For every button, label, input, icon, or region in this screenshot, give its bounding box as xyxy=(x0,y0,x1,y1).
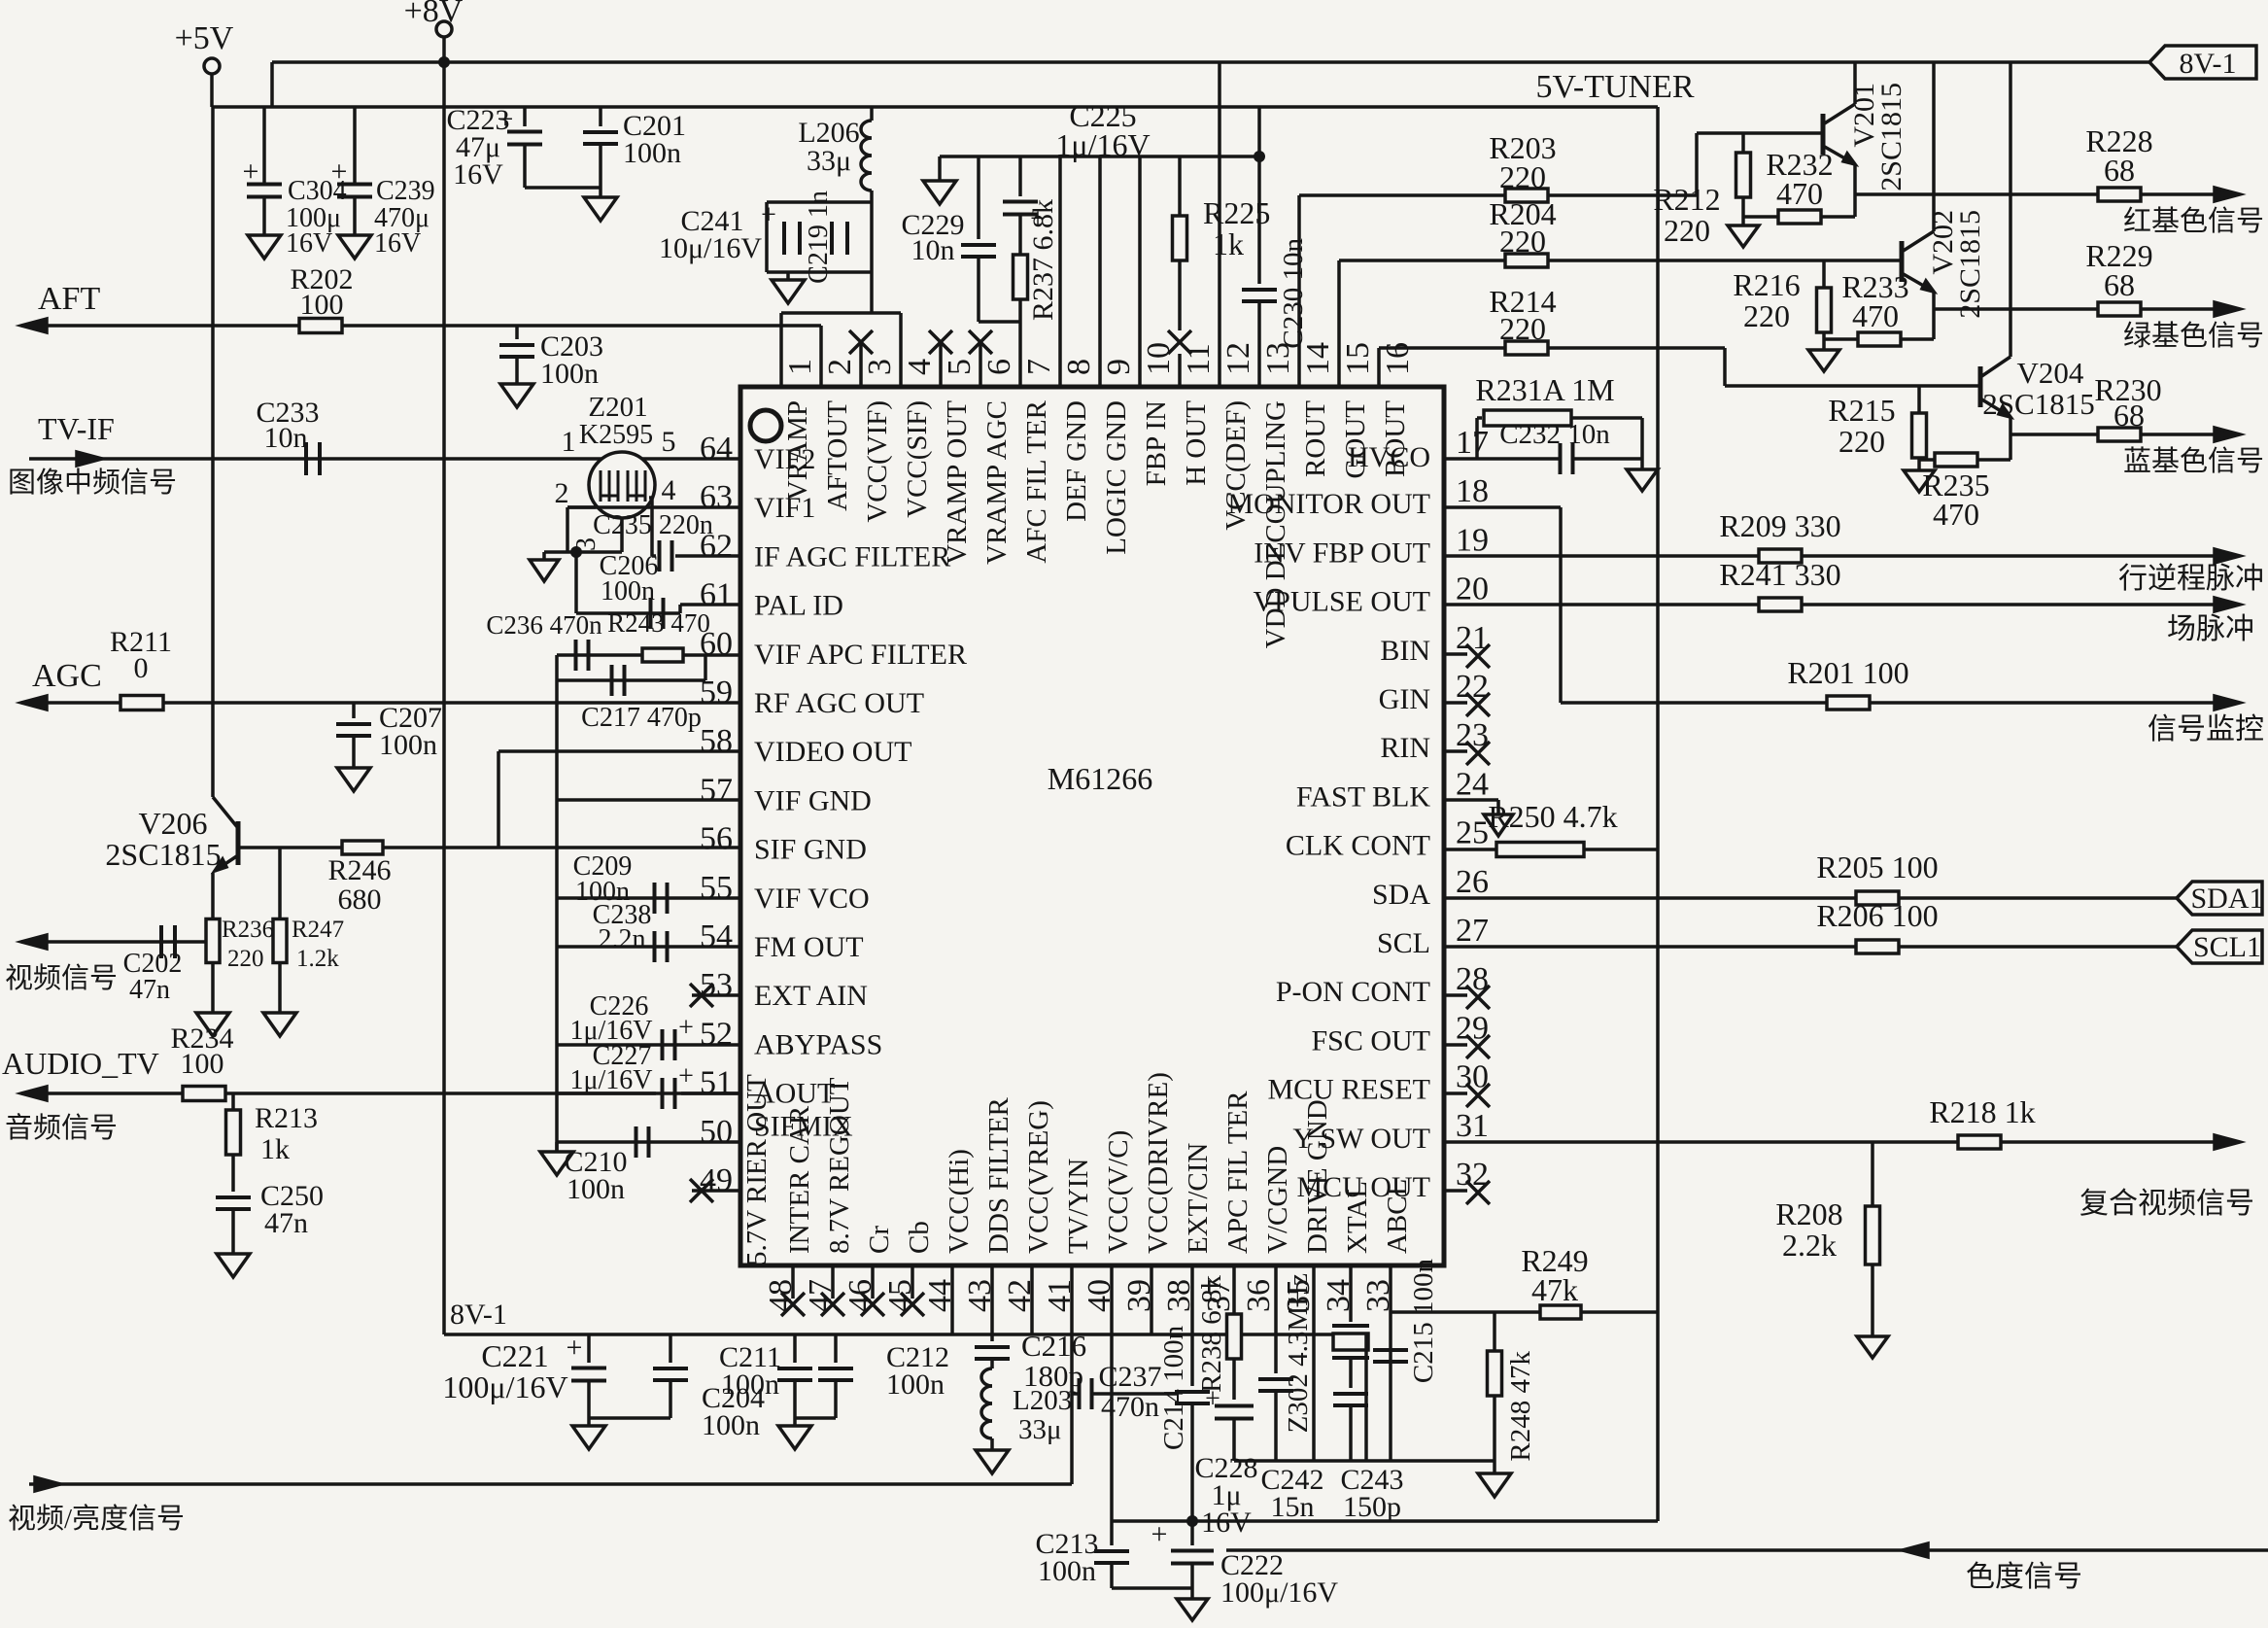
svg-text:+: + xyxy=(243,156,259,188)
svg-text:150p: 150p xyxy=(1343,1491,1401,1523)
ground C203 xyxy=(500,384,533,407)
arrow chroma xyxy=(1903,1543,1928,1557)
svg-text:MCU RESET: MCU RESET xyxy=(1267,1074,1430,1106)
svg-text:V/CGND: V/CGND xyxy=(1262,1146,1293,1254)
svg-text:31: 31 xyxy=(1456,1108,1489,1144)
svg-text:100n: 100n xyxy=(721,1368,779,1401)
svg-text:100n: 100n xyxy=(379,729,437,761)
svg-text:场脉冲: 场脉冲 xyxy=(2167,613,2254,645)
svg-text:VIF1: VIF1 xyxy=(754,492,815,524)
svg-text:100: 100 xyxy=(181,1048,224,1080)
ground C221 xyxy=(587,1418,591,1426)
resistor R212 220 xyxy=(1741,133,1745,153)
svg-text:55: 55 xyxy=(700,870,733,906)
svg-text:V206: V206 xyxy=(138,806,207,841)
wire pin34 column xyxy=(1349,1265,1353,1322)
+5V terminal xyxy=(204,58,220,74)
transistor V201 2SC1815 xyxy=(1821,114,1826,155)
no-connect X pin 28 xyxy=(1444,993,1467,997)
net tag SCL1 xyxy=(2177,930,2262,963)
svg-text:+: + xyxy=(331,156,348,188)
resistor R232 470 xyxy=(1743,215,1855,219)
svg-text:18: 18 xyxy=(1456,473,1489,509)
arrow red output xyxy=(2215,188,2240,201)
svg-text:17: 17 xyxy=(1456,425,1489,461)
svg-text:19: 19 xyxy=(1456,522,1489,558)
wire pin10 to rail xyxy=(1138,156,1142,387)
resistor R247 1.2k xyxy=(278,848,282,919)
wire pin54 row xyxy=(557,945,740,949)
svg-text:15n: 15n xyxy=(1271,1491,1315,1523)
svg-text:7: 7 xyxy=(1021,359,1057,375)
svg-text:绿基色信号: 绿基色信号 xyxy=(2123,320,2264,352)
capacitor C214 100n xyxy=(1175,1390,1210,1394)
capacitor C221 100u/16V xyxy=(587,1334,591,1363)
capacitor C216 180p xyxy=(975,1345,1010,1349)
wire pin9 to rail xyxy=(1098,156,1102,387)
no-connect X pin 29 xyxy=(1444,1043,1467,1047)
wire pin17 HVCO stub xyxy=(1444,457,1477,461)
svg-text:Y SW OUT: Y SW OUT xyxy=(1292,1123,1430,1155)
wire pin19 INV FBP OUT line xyxy=(1444,554,1759,558)
capacitor C207 100n xyxy=(352,703,356,718)
svg-text:Z201: Z201 xyxy=(588,392,647,423)
svg-text:100μ/16V: 100μ/16V xyxy=(442,1369,567,1404)
capacitor C250 47n xyxy=(216,1195,251,1199)
svg-text:M61266: M61266 xyxy=(1048,761,1152,796)
resistor R230 68 xyxy=(2098,428,2141,441)
svg-text:Cb: Cb xyxy=(904,1221,935,1254)
capacitor C242 15n xyxy=(1258,1377,1293,1381)
svg-text:R218 1k: R218 1k xyxy=(1929,1094,2035,1129)
svg-text:R201 100: R201 100 xyxy=(1787,655,1908,690)
svg-text:视频/亮度信号: 视频/亮度信号 xyxy=(8,1503,185,1535)
svg-text:64: 64 xyxy=(700,431,733,467)
wire C217 row xyxy=(704,655,707,680)
svg-text:54: 54 xyxy=(700,918,733,954)
arrow blue output xyxy=(2215,428,2240,441)
wire pin58 VIDEO OUT xyxy=(498,749,740,753)
svg-text:+5V: +5V xyxy=(175,20,234,56)
svg-text:12: 12 xyxy=(1220,342,1256,375)
wire Z201 pin2 xyxy=(567,505,596,509)
resistor R246 680 xyxy=(342,841,383,854)
capacitor C230 10n on pin13 xyxy=(1257,107,1261,284)
svg-text:220: 220 xyxy=(1838,424,1885,459)
svg-text:PAL ID: PAL ID xyxy=(754,590,843,622)
capacitor C217 470p xyxy=(610,665,614,696)
svg-text:26: 26 xyxy=(1456,864,1489,900)
svg-text:HVCO: HVCO xyxy=(1348,441,1430,473)
svg-text:1: 1 xyxy=(562,426,576,458)
svg-text:VCC(VIF): VCC(VIF) xyxy=(862,400,893,523)
svg-text:R215: R215 xyxy=(1828,393,1895,428)
resistor R238 6.8k xyxy=(1227,1314,1242,1359)
svg-text:VCC(Hi): VCC(Hi) xyxy=(944,1149,975,1254)
arrow AUDIO_TV xyxy=(21,1087,47,1100)
svg-text:SDA1: SDA1 xyxy=(2190,883,2263,915)
ground C222 xyxy=(1177,1599,1208,1620)
resistor R228 68 xyxy=(2098,188,2141,201)
svg-text:GIN: GIN xyxy=(1379,683,1430,715)
wire pin39 to bottom rail xyxy=(1150,1265,1153,1334)
svg-text:470n: 470n xyxy=(1101,1391,1159,1423)
svg-text:FBP IN: FBP IN xyxy=(1141,400,1172,486)
arrow video luma xyxy=(35,1477,60,1491)
ground R212 xyxy=(1741,217,1745,225)
capacitor C215 100n xyxy=(1373,1348,1408,1352)
svg-text:VIF2: VIF2 xyxy=(754,443,815,475)
svg-text:TV/YIN: TV/YIN xyxy=(1063,1159,1094,1254)
ground R247 xyxy=(263,1013,296,1036)
wire pin60 row xyxy=(557,653,740,657)
svg-text:1k: 1k xyxy=(260,1133,290,1165)
wire pin25 CLK CONT R250 xyxy=(1444,848,1496,851)
SAW filter Z201 K2595 xyxy=(589,452,655,518)
wire C211 C212 join xyxy=(795,1416,836,1420)
svg-text:1k: 1k xyxy=(1213,226,1244,261)
ground R248 bus xyxy=(1478,1473,1511,1497)
svg-text:V204: V204 xyxy=(2017,356,2084,390)
arrow line pulse xyxy=(2215,549,2240,563)
svg-text:8V-1: 8V-1 xyxy=(2180,48,2237,80)
svg-text:BIN: BIN xyxy=(1380,635,1430,667)
capacitor C203 100n xyxy=(515,326,519,339)
svg-text:5V-TUNER: 5V-TUNER xyxy=(1535,69,1694,105)
svg-text:R206 100: R206 100 xyxy=(1816,898,1938,933)
ground C207 xyxy=(337,768,370,791)
node Z201 gnd junction xyxy=(570,546,582,558)
resistor R241 330 xyxy=(1759,598,1802,611)
svg-text:58: 58 xyxy=(700,723,733,759)
svg-text:AFTOUT: AFTOUT xyxy=(822,400,853,511)
svg-text:H OUT: H OUT xyxy=(1181,400,1212,486)
wire green output line xyxy=(1934,307,2099,311)
svg-text:C237: C237 xyxy=(1098,1361,1161,1393)
IC U1 pin-1 indicator circle xyxy=(750,410,781,441)
wire 5V to C213 C222 run xyxy=(1112,1519,1658,1523)
resistor R206 100 xyxy=(1856,940,1899,953)
capacitor C233 10n xyxy=(304,442,308,475)
resistor R209 330 xyxy=(1759,549,1802,563)
transistor V204 2SC1815 xyxy=(1978,366,1983,407)
wire monitor line R201 xyxy=(1561,701,1827,705)
no-connect X pin 45 xyxy=(911,1265,914,1299)
wire C229 to pin7 jog xyxy=(979,320,1020,324)
svg-text:220: 220 xyxy=(1499,159,1546,194)
arrow video signal xyxy=(21,935,47,949)
svg-text:SCL: SCL xyxy=(1377,927,1430,959)
ground R208 xyxy=(1857,1336,1888,1358)
resistor R213 1k xyxy=(231,1093,235,1110)
svg-text:10μ/16V: 10μ/16V xyxy=(659,232,762,264)
resistor R203 220 xyxy=(1505,189,1548,202)
svg-text:TV-IF: TV-IF xyxy=(38,411,115,446)
resistor R229 68 xyxy=(2098,302,2141,316)
svg-text:VIDEO OUT: VIDEO OUT xyxy=(754,736,911,768)
svg-text:33μ: 33μ xyxy=(1018,1414,1062,1445)
wire pin50 row xyxy=(557,1140,740,1144)
resistor R236 220 xyxy=(211,919,215,942)
svg-text:1μ/16V: 1μ/16V xyxy=(569,1065,652,1095)
wire video luma line xyxy=(29,1482,1072,1486)
svg-text:INV FBP OUT: INV FBP OUT xyxy=(1254,537,1430,569)
svg-text:+8V: +8V xyxy=(404,0,464,29)
ground C225 rail left end xyxy=(938,156,942,181)
arrow AFT xyxy=(21,319,47,332)
arrow AGC xyxy=(21,696,47,710)
node C222 top xyxy=(1186,1515,1198,1527)
svg-text:MCU OUT: MCU OUT xyxy=(1296,1171,1430,1203)
no-connect X pin 32 xyxy=(1444,1189,1467,1193)
transistor V202 2SC1815 xyxy=(1900,241,1905,282)
no-connect X pin 53 xyxy=(692,993,740,997)
resistor R205 100 xyxy=(1856,891,1899,905)
wire bottom bus xyxy=(1234,1459,1495,1463)
svg-text:100: 100 xyxy=(300,289,344,321)
wire pin40 column xyxy=(1110,1265,1114,1521)
no-connect X pin 11 xyxy=(1168,330,1191,354)
no-connect X pin 5 xyxy=(939,342,943,387)
svg-text:10n: 10n xyxy=(264,422,308,454)
ground R216 xyxy=(1822,339,1826,350)
svg-text:VCC(SIF): VCC(SIF) xyxy=(902,400,933,518)
capacitor C211 100n xyxy=(793,1334,797,1363)
wire Z201 pin63 VIF1 xyxy=(567,505,740,509)
svg-text:20: 20 xyxy=(1456,572,1489,607)
svg-text:24: 24 xyxy=(1456,766,1489,802)
svg-text:SIFMIX: SIFMIX xyxy=(754,1111,853,1143)
resistor R204 220 xyxy=(1505,254,1548,267)
svg-text:VIF GND: VIF GND xyxy=(754,784,872,816)
svg-text:100n: 100n xyxy=(1038,1555,1096,1587)
svg-text:VCC(V/C): VCC(V/C) xyxy=(1103,1130,1134,1254)
wire pin37 column xyxy=(1232,1265,1236,1314)
svg-text:100n: 100n xyxy=(886,1368,945,1401)
svg-text:680: 680 xyxy=(338,883,382,916)
ground L203 xyxy=(976,1450,1009,1473)
svg-text:25: 25 xyxy=(1456,815,1489,851)
resistor R234 100 xyxy=(183,1087,225,1101)
svg-text:IF AGC FILTER: IF AGC FILTER xyxy=(754,540,950,572)
svg-text:ROUT: ROUT xyxy=(1300,400,1331,477)
wire R238 to C228 xyxy=(1232,1359,1236,1400)
capacitor C227 1u/16V xyxy=(661,1078,665,1109)
svg-text:红基色信号: 红基色信号 xyxy=(2123,205,2264,237)
no-connect X pin 30 xyxy=(1444,1091,1467,1095)
svg-text:47k: 47k xyxy=(1531,1272,1578,1307)
wire R250 to 5V tuner xyxy=(1584,848,1658,851)
wire R214 to V204 base xyxy=(1548,346,1725,350)
crystal Z302 symbol xyxy=(1332,1324,1369,1328)
svg-text:R243 470: R243 470 xyxy=(607,608,710,638)
svg-text:57: 57 xyxy=(700,772,733,808)
svg-text:470: 470 xyxy=(1776,176,1823,211)
svg-text:+: + xyxy=(678,1013,694,1043)
svg-text:2SC1815: 2SC1815 xyxy=(1982,387,2094,421)
no-connect X pin 6 xyxy=(979,342,982,387)
svg-text:C230 10n: C230 10n xyxy=(1278,238,1309,349)
resistor R216 220 xyxy=(1822,260,1826,288)
svg-text:R216: R216 xyxy=(1733,267,1800,302)
resistor R233 470 xyxy=(1824,337,1934,341)
capacitor C232 10n xyxy=(1559,443,1563,474)
arrow field pulse xyxy=(2215,598,2240,611)
svg-text:R247: R247 xyxy=(292,917,344,943)
wire pin42 to bottom rail xyxy=(1030,1265,1034,1334)
capacitor C229 10n xyxy=(977,156,980,239)
wire Z201 pin4 to C235 xyxy=(649,496,652,500)
capacitor C202 47n xyxy=(159,925,163,958)
+8V terminal xyxy=(436,21,452,37)
ground C223 C201 xyxy=(584,197,617,221)
svg-text:33μ: 33μ xyxy=(807,145,851,177)
wire pin31 Y SW OUT composite line xyxy=(1444,1140,1958,1144)
capacitor C219 1n xyxy=(830,222,834,255)
svg-text:68: 68 xyxy=(2104,267,2135,302)
svg-text:AGC: AGC xyxy=(32,658,102,694)
svg-text:2: 2 xyxy=(822,359,858,375)
resistor R202 100 xyxy=(299,319,342,333)
ground C232 xyxy=(1627,469,1658,491)
svg-text:ABYPASS: ABYPASS xyxy=(754,1028,882,1060)
capacitor C243 150p xyxy=(1333,1392,1368,1396)
svg-text:8: 8 xyxy=(1061,359,1097,375)
svg-text:2SC1815: 2SC1815 xyxy=(105,837,221,872)
wire red output line xyxy=(1855,192,2099,196)
capacitor C239 470u/16V xyxy=(337,183,372,187)
wire pin27 SCL line xyxy=(1444,945,1856,949)
wire pin24 FAST BLK xyxy=(1444,798,1498,802)
wire Z201 pin3 xyxy=(620,518,624,552)
wire video out line xyxy=(21,940,213,944)
wire pin55 row xyxy=(557,896,740,900)
svg-text:2.2n: 2.2n xyxy=(599,924,646,954)
svg-text:15: 15 xyxy=(1340,342,1376,375)
svg-text:EXT AIN: EXT AIN xyxy=(754,980,868,1012)
wire BOUT pin16 to R214 line xyxy=(1377,348,1381,387)
svg-text:R212: R212 xyxy=(1653,182,1720,217)
svg-text:VIF VCO: VIF VCO xyxy=(754,883,870,915)
ground R215 xyxy=(1917,460,1921,470)
net tag SDA1 xyxy=(2177,882,2262,915)
svg-text:R238 6.8k: R238 6.8k xyxy=(1196,1275,1227,1393)
wire +8V stem xyxy=(442,37,446,62)
svg-text:R236: R236 xyxy=(222,917,274,943)
svg-text:100n: 100n xyxy=(601,576,655,606)
wire ROUT pin14 to R203 line xyxy=(1297,195,1301,387)
capacitor C201 100n xyxy=(599,107,602,126)
no-connect X pin 3 xyxy=(859,342,863,387)
svg-text:+: + xyxy=(1205,1384,1220,1414)
wire C225 rail xyxy=(940,155,1259,158)
svg-text:3: 3 xyxy=(862,359,898,375)
svg-text:1μ/16V: 1μ/16V xyxy=(1055,127,1150,162)
svg-text:K2595: K2595 xyxy=(579,420,653,450)
svg-text:APC FIL TER: APC FIL TER xyxy=(1222,1091,1254,1254)
ground Z201 xyxy=(542,552,546,560)
wire pin52 row xyxy=(557,1043,740,1047)
svg-text:FM OUT: FM OUT xyxy=(754,931,864,963)
svg-text:R250 4.7k: R250 4.7k xyxy=(1488,799,1617,834)
svg-text:0: 0 xyxy=(134,652,149,684)
svg-text:RIN: RIN xyxy=(1380,732,1430,764)
svg-text:AUDIO_TV: AUDIO_TV xyxy=(2,1046,159,1081)
wire blue output line xyxy=(2010,433,2099,436)
svg-text:10n: 10n xyxy=(911,234,955,266)
svg-text:Z302 4.3MHz: Z302 4.3MHz xyxy=(1283,1273,1314,1433)
svg-text:P-ON CONT: P-ON CONT xyxy=(1276,976,1430,1008)
svg-text:EXT/CIN: EXT/CIN xyxy=(1183,1143,1214,1254)
svg-text:9: 9 xyxy=(1101,359,1137,375)
capacitor C237 470n xyxy=(1072,1392,1079,1396)
wire pin18 MONITOR OUT xyxy=(1444,505,1561,509)
resistor R237 6.8k xyxy=(1018,215,1022,255)
wire 8V-1 vertical xyxy=(442,62,446,1334)
wire R203 to V201 base xyxy=(1548,193,1697,197)
svg-text:SDA: SDA xyxy=(1372,879,1430,911)
svg-text:16V: 16V xyxy=(374,228,421,259)
capacitor C206 100n xyxy=(649,598,653,629)
capacitor C226 1u/16V xyxy=(661,1029,665,1060)
svg-text:100n: 100n xyxy=(540,358,599,390)
svg-text:50: 50 xyxy=(700,1114,733,1150)
svg-text:220: 220 xyxy=(1499,311,1546,346)
svg-text:47n: 47n xyxy=(129,975,170,1005)
capacitor C236 470n xyxy=(574,640,578,671)
svg-text:AOUT: AOUT xyxy=(754,1078,835,1110)
svg-text:1.2k: 1.2k xyxy=(296,946,339,972)
svg-text:220: 220 xyxy=(1499,224,1546,259)
ground FAST BLK xyxy=(1484,814,1513,836)
wire bottom rail drop xyxy=(1364,1334,1368,1461)
svg-text:音频信号: 音频信号 xyxy=(5,1112,118,1144)
svg-text:VPULSE OUT: VPULSE OUT xyxy=(1253,586,1430,618)
svg-text:复合视频信号: 复合视频信号 xyxy=(2079,1188,2254,1220)
ground C241 C219 xyxy=(786,272,790,280)
svg-text:220: 220 xyxy=(1664,213,1710,248)
arrow signal monitor xyxy=(2215,696,2240,710)
arrow composite video xyxy=(2215,1135,2240,1149)
no-connect X pin 22 xyxy=(1444,701,1467,705)
svg-text:C239: C239 xyxy=(376,176,435,206)
resistor R231A 1M xyxy=(1477,416,1482,420)
svg-text:56: 56 xyxy=(700,821,733,857)
arrow green output xyxy=(2215,302,2240,316)
wire pin51 AOUT row xyxy=(557,1091,740,1095)
wire R231A C232 right xyxy=(1640,418,1644,469)
no-connect X pin 21 xyxy=(1444,652,1467,656)
capacitor C213 100n xyxy=(1110,1521,1114,1545)
wire R204 to V202 base xyxy=(1548,259,1900,262)
wire pin33 column xyxy=(1389,1265,1392,1461)
no-connect X pin 46 xyxy=(871,1265,875,1299)
wire VRAMP pin1 pin4 rail xyxy=(781,311,901,315)
wire left bus xyxy=(555,655,559,1152)
wire pin36 column xyxy=(1274,1265,1278,1373)
wire pin26 SDA line xyxy=(1444,896,1856,900)
svg-text:C232 10n: C232 10n xyxy=(1499,419,1610,450)
resistor R249 47k line xyxy=(1391,1310,1540,1314)
svg-text:5: 5 xyxy=(942,359,978,375)
wire pin38 column C214 xyxy=(1190,1265,1194,1386)
capacitor C204 100n xyxy=(669,1334,672,1363)
net tag 8V-1 top right xyxy=(2149,46,2256,79)
resistor R218 1k xyxy=(1958,1135,2001,1149)
svg-text:+: + xyxy=(1151,1518,1168,1550)
svg-text:16V: 16V xyxy=(286,228,332,259)
wire 5V-TUNER vertical xyxy=(1656,107,1660,1521)
